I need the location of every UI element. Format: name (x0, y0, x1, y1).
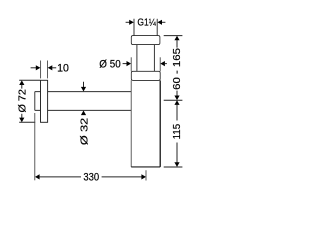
dimension diameter 32 (pipe bore) (79, 82, 90, 145)
dimension G1 1/4 (126, 18, 166, 29)
svg-text:60 - 165: 60 - 165 (172, 47, 183, 89)
union nut lower (131, 71, 160, 80)
svg-text:Ø 72: Ø 72 (17, 89, 28, 113)
svg-text:330: 330 (83, 172, 99, 184)
svg-text:10: 10 (57, 62, 69, 74)
dimension 10 (escutcheon thickness) (31, 61, 69, 79)
inner adjustable tube (137, 45, 155, 72)
svg-text:115: 115 (172, 123, 183, 139)
dimension diameter 72 (escutcheon) (17, 80, 40, 122)
union nut upper (131, 36, 160, 45)
trap body (cup) (130, 80, 132, 166)
svg-text:Ø 50: Ø 50 (99, 59, 120, 71)
dimension 115 (body depth, right bottom) (164, 100, 184, 167)
escutcheon (wall flange plate, covers pipe) (41, 80, 48, 122)
dimension 330 (wall to trap axis, bottom) (35, 113, 146, 184)
wall pipe (horizontal tube from wall to trap body) (35, 92, 131, 111)
dimension diameter 50 (99, 57, 167, 71)
tailpiece pipe (G1 1/4 thread section, lines double as extension lines) (134, 19, 157, 36)
dimension 60 - 165 (adjustable height, right top) (164, 36, 183, 101)
svg-text:G1¼: G1¼ (137, 18, 156, 29)
svg-text:Ø 32: Ø 32 (79, 117, 90, 145)
